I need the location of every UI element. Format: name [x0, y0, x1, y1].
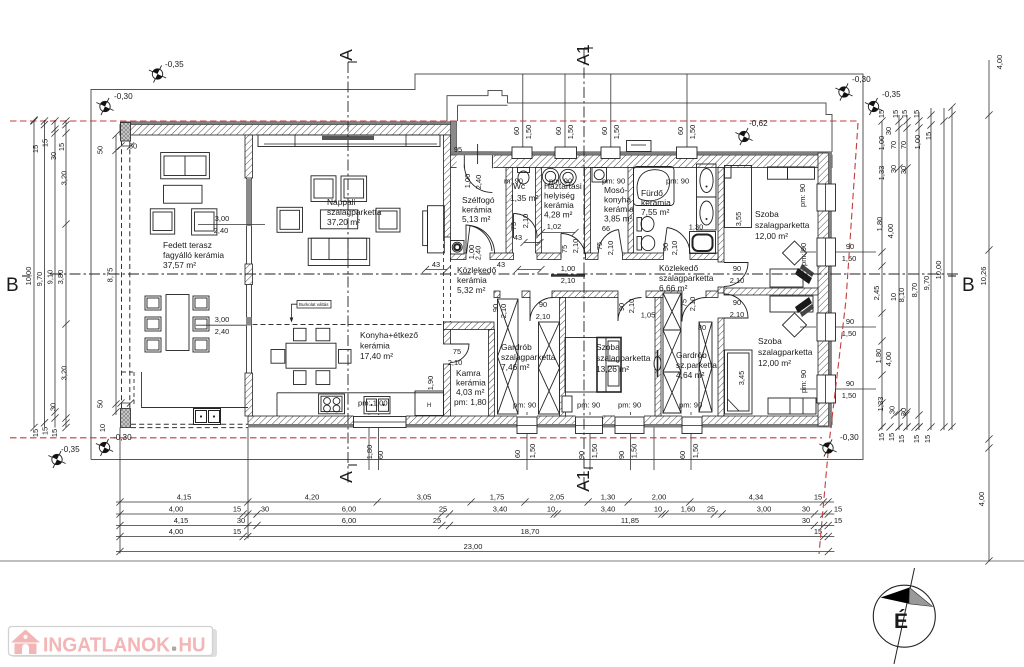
svg-text:30: 30	[899, 166, 908, 174]
svg-text:60: 60	[512, 127, 521, 135]
svg-text:5,13 m²: 5,13 m²	[462, 214, 491, 224]
svg-text:pm: 90: pm: 90	[799, 243, 808, 266]
svg-text:3,05: 3,05	[417, 493, 432, 502]
svg-text:30: 30	[884, 127, 893, 135]
svg-text:helyiség: helyiség	[544, 191, 575, 201]
svg-text:1,90: 1,90	[426, 376, 435, 390]
svg-text:4,64 m²: 4,64 m²	[676, 370, 705, 380]
svg-text:15: 15	[834, 516, 842, 525]
svg-text:12,00 m²: 12,00 m²	[755, 231, 788, 241]
svg-text:2,10: 2,10	[688, 297, 697, 311]
svg-text:-0,30: -0,30	[840, 433, 859, 442]
svg-text:10: 10	[654, 505, 662, 514]
svg-text:15: 15	[923, 435, 932, 443]
svg-text:1,33: 1,33	[877, 166, 886, 181]
svg-text:15: 15	[233, 527, 241, 536]
svg-text:Szoba: Szoba	[758, 336, 782, 346]
svg-text:4,00: 4,00	[977, 492, 986, 507]
svg-text:30: 30	[49, 152, 58, 160]
svg-text:15: 15	[50, 429, 59, 437]
svg-text:A: A	[336, 49, 356, 61]
svg-text:pm: 90: pm: 90	[798, 184, 807, 207]
svg-text:2,10: 2,10	[606, 241, 615, 255]
svg-text:95: 95	[454, 145, 462, 154]
svg-text:1,30: 1,30	[689, 223, 703, 232]
svg-text:1,50: 1,50	[528, 444, 537, 458]
svg-text:2,10: 2,10	[561, 276, 575, 285]
svg-text:4,00: 4,00	[169, 505, 184, 514]
svg-text:37,57 m²: 37,57 m²	[163, 260, 196, 270]
svg-text:3,00: 3,00	[215, 315, 229, 324]
svg-text:60: 60	[513, 450, 522, 458]
svg-text:15: 15	[57, 143, 66, 151]
svg-text:pm: 90: pm: 90	[618, 401, 641, 410]
svg-text:30: 30	[261, 505, 269, 514]
svg-text:23,00: 23,00	[464, 542, 483, 551]
svg-text:pm: 90: pm: 90	[513, 401, 536, 410]
svg-text:É: É	[894, 610, 908, 633]
svg-text:3,85 m²: 3,85 m²	[604, 214, 633, 224]
svg-text:30: 30	[899, 408, 908, 416]
svg-text:75: 75	[453, 347, 461, 356]
svg-text:9,70: 9,70	[922, 276, 931, 291]
svg-text:30: 30	[802, 516, 810, 525]
svg-text:8,70: 8,70	[910, 283, 919, 298]
svg-text:30: 30	[889, 165, 898, 173]
svg-text:15: 15	[31, 145, 40, 153]
svg-text:60: 60	[676, 127, 685, 135]
svg-text:90: 90	[733, 298, 741, 307]
svg-text:pm: 90: pm: 90	[679, 401, 702, 410]
svg-text:kerámia: kerámia	[544, 200, 574, 210]
svg-text:A1: A1	[573, 470, 593, 491]
svg-text:Gardrób: Gardrób	[676, 350, 707, 360]
svg-text:75: 75	[560, 245, 569, 253]
svg-text:1,35 m²: 1,35 m²	[510, 193, 539, 203]
svg-text:2,10: 2,10	[448, 358, 462, 367]
svg-text:3,45: 3,45	[737, 371, 746, 385]
svg-text:90: 90	[661, 243, 670, 251]
svg-text:A1: A1	[573, 44, 593, 65]
svg-text:pm: 90: pm: 90	[577, 401, 600, 410]
svg-text:2,10: 2,10	[627, 299, 636, 313]
svg-text:Fedett terasz: Fedett terasz	[163, 240, 212, 250]
svg-text:2,00: 2,00	[652, 493, 667, 502]
svg-text:szalagparketta: szalagparketta	[596, 353, 651, 363]
svg-text:4,00: 4,00	[886, 224, 895, 239]
svg-text:2,40: 2,40	[214, 226, 228, 235]
svg-text:90: 90	[846, 379, 854, 388]
svg-text:75: 75	[595, 242, 604, 250]
svg-text:9,10: 9,10	[46, 270, 55, 285]
svg-text:4,15: 4,15	[177, 493, 192, 502]
svg-text:Szélfogó: Szélfogó	[462, 195, 495, 205]
svg-text:-0,35: -0,35	[882, 90, 901, 99]
svg-text:1,50: 1,50	[842, 391, 857, 400]
svg-text:75: 75	[509, 222, 518, 230]
svg-text:90: 90	[577, 451, 586, 459]
svg-text:80: 80	[698, 323, 706, 332]
svg-text:1,00: 1,00	[913, 135, 922, 150]
svg-text:60: 60	[376, 451, 385, 459]
svg-text:1,00: 1,00	[463, 174, 472, 188]
svg-text:Kamra: Kamra	[456, 368, 481, 378]
svg-text:2,10: 2,10	[571, 239, 580, 253]
svg-text:10,26: 10,26	[979, 267, 988, 286]
svg-text:szalagparketta: szalagparketta	[659, 273, 714, 283]
svg-text:pm: 1,80: pm: 1,80	[454, 397, 487, 407]
svg-text:1,30: 1,30	[601, 493, 616, 502]
svg-text:2,40: 2,40	[215, 327, 229, 336]
svg-text:66: 66	[602, 224, 610, 233]
svg-text:15: 15	[887, 433, 896, 441]
svg-text:1,50: 1,50	[842, 329, 857, 338]
svg-text:60: 60	[554, 127, 563, 135]
svg-text:Fürdő: Fürdő	[641, 188, 663, 198]
svg-text:11,85: 11,85	[621, 516, 639, 525]
svg-text:-0,30: -0,30	[114, 92, 133, 101]
svg-text:1,80: 1,80	[874, 349, 883, 364]
svg-text:Konyha+étkező: Konyha+étkező	[360, 330, 418, 340]
svg-text:90: 90	[846, 317, 854, 326]
svg-text:7,46 m²: 7,46 m²	[501, 362, 530, 372]
svg-text:70: 70	[899, 141, 908, 149]
svg-text:2,40: 2,40	[474, 246, 483, 260]
svg-text:Közlekedő: Közlekedő	[659, 263, 698, 273]
svg-text:-0,30: -0,30	[113, 433, 132, 442]
svg-text:m: 90: m: 90	[504, 177, 523, 186]
svg-text:6,00: 6,00	[342, 516, 357, 525]
svg-text:70: 70	[889, 141, 898, 149]
svg-text:90: 90	[617, 303, 626, 311]
svg-text:8,75: 8,75	[106, 268, 115, 283]
svg-text:pm: 90: pm: 90	[666, 177, 689, 186]
svg-text:8,10: 8,10	[897, 288, 906, 303]
svg-text:6,66 m²: 6,66 m²	[659, 283, 688, 293]
svg-text:15: 15	[814, 493, 822, 502]
svg-text:1,50: 1,50	[688, 125, 697, 139]
svg-text:-0,35: -0,35	[61, 445, 80, 454]
svg-text:13,26 m²: 13,26 m²	[596, 364, 629, 374]
svg-text:1,50: 1,50	[630, 444, 639, 458]
svg-text:H: H	[427, 403, 431, 409]
svg-text:1,50: 1,50	[566, 125, 575, 139]
svg-text:6,00: 6,00	[342, 505, 357, 514]
svg-text:50: 50	[96, 400, 105, 408]
svg-text:sz.parketta: sz.parketta	[676, 360, 717, 370]
svg-text:1,75: 1,75	[490, 493, 505, 502]
svg-text:kerámia: kerámia	[456, 378, 486, 388]
svg-text:1,60: 1,60	[681, 505, 696, 514]
svg-text:15: 15	[891, 110, 900, 118]
svg-text:szalagparketta: szalagparketta	[501, 352, 556, 362]
svg-text:4,00: 4,00	[884, 352, 893, 367]
svg-text:2,45: 2,45	[872, 286, 881, 301]
svg-text:25: 25	[439, 505, 447, 514]
svg-text:30: 30	[49, 403, 58, 411]
svg-text:12,00 m²: 12,00 m²	[758, 358, 791, 368]
svg-text:1,00: 1,00	[561, 264, 575, 273]
svg-text:fagyálló kerámia: fagyálló kerámia	[163, 250, 224, 260]
svg-text:kerámia: kerámia	[457, 275, 487, 285]
svg-text:90: 90	[539, 300, 547, 309]
svg-text:3,00: 3,00	[215, 214, 229, 223]
svg-text:-0,35: -0,35	[165, 60, 184, 69]
svg-text:43: 43	[497, 260, 505, 269]
svg-text:15: 15	[877, 110, 886, 118]
svg-text:15: 15	[900, 110, 909, 118]
svg-text:60: 60	[678, 451, 687, 459]
svg-text:25: 25	[707, 505, 715, 514]
svg-text:3,40: 3,40	[601, 505, 616, 514]
svg-text:7,55 m²: 7,55 m²	[641, 207, 670, 217]
svg-text:1,50: 1,50	[590, 444, 599, 458]
svg-text:kerámia: kerámia	[462, 205, 492, 215]
svg-text:szalagparketta: szalagparketta	[758, 347, 813, 357]
svg-text:4,15: 4,15	[174, 516, 189, 525]
svg-text:15: 15	[31, 429, 40, 437]
svg-text:37,20 m²: 37,20 m²	[327, 217, 360, 227]
svg-text:9,70: 9,70	[35, 272, 44, 287]
svg-text:1,05: 1,05	[641, 311, 655, 320]
svg-text:90: 90	[617, 451, 626, 459]
svg-text:4,28 m²: 4,28 m²	[544, 210, 573, 220]
svg-text:2,10: 2,10	[730, 276, 744, 285]
svg-text:4,34: 4,34	[749, 493, 764, 502]
svg-text:3,20: 3,20	[60, 171, 69, 186]
svg-text:15: 15	[897, 435, 906, 443]
svg-text:15: 15	[912, 435, 921, 443]
svg-text:3,40: 3,40	[493, 505, 508, 514]
svg-text:kerámia: kerámia	[641, 198, 671, 208]
svg-text:-0,62: -0,62	[749, 119, 768, 128]
svg-text:10,00: 10,00	[934, 261, 943, 280]
svg-text:43: 43	[514, 233, 522, 242]
svg-text:15: 15	[834, 505, 842, 514]
svg-text:5,32 m²: 5,32 m²	[457, 285, 486, 295]
svg-text:30: 30	[237, 516, 245, 525]
svg-text:15: 15	[912, 110, 921, 118]
svg-text:pm: 90: pm: 90	[549, 177, 572, 186]
svg-text:10: 10	[547, 505, 555, 514]
svg-text:pm: 1,00: pm: 1,00	[358, 399, 388, 408]
svg-text:A: A	[336, 471, 356, 483]
svg-text:15: 15	[877, 433, 886, 441]
svg-text:Mosó-: Mosó-	[604, 185, 627, 195]
svg-text:15: 15	[924, 132, 933, 140]
svg-text:Burkolat váltás: Burkolat váltás	[299, 302, 329, 307]
svg-text:25: 25	[433, 516, 441, 525]
svg-text:1,80: 1,80	[365, 445, 374, 459]
svg-text:30: 30	[802, 505, 810, 514]
svg-text:10: 10	[98, 424, 107, 432]
svg-text:18,70: 18,70	[521, 527, 540, 536]
svg-text:1,50: 1,50	[612, 125, 621, 139]
svg-text:B: B	[962, 275, 975, 296]
svg-text:1,00: 1,00	[877, 136, 886, 151]
svg-text:1,50: 1,50	[524, 125, 533, 139]
svg-text:Gardrób: Gardrób	[501, 342, 532, 352]
svg-text:szalagparketta: szalagparketta	[755, 220, 810, 230]
svg-text:Közlekedő: Közlekedő	[457, 265, 496, 275]
svg-text:1,50: 1,50	[691, 444, 700, 458]
svg-text:pm: 90: pm: 90	[602, 177, 625, 186]
svg-text:2,40: 2,40	[474, 175, 483, 189]
svg-text:2,10: 2,10	[499, 304, 508, 318]
svg-text:HU: HU	[179, 635, 206, 657]
svg-text:50: 50	[96, 146, 105, 154]
svg-text:4,03 m²: 4,03 m²	[456, 387, 485, 397]
svg-text:3,00: 3,00	[757, 505, 772, 514]
svg-text:2,10: 2,10	[521, 214, 530, 228]
svg-text:3,20: 3,20	[60, 366, 69, 381]
svg-text:INGATLANOK: INGATLANOK	[43, 635, 171, 657]
svg-text:kerámia: kerámia	[360, 341, 390, 351]
svg-text:1,33: 1,33	[876, 397, 885, 412]
svg-text:30: 30	[888, 406, 897, 414]
svg-text:15: 15	[41, 427, 50, 435]
svg-text:3,80: 3,80	[56, 270, 65, 285]
svg-text:kerámia: kerámia	[604, 204, 634, 214]
svg-text:1,80: 1,80	[875, 217, 884, 232]
svg-text:szalagparketta: szalagparketta	[327, 207, 382, 217]
svg-text:17,40 m²: 17,40 m²	[360, 351, 393, 361]
svg-text:2,05: 2,05	[550, 493, 565, 502]
svg-text:Szoba: Szoba	[755, 209, 779, 219]
svg-text:2,10: 2,10	[536, 312, 550, 321]
svg-text:4,20: 4,20	[305, 493, 320, 502]
svg-text:3,55: 3,55	[734, 212, 743, 226]
svg-text:B: B	[6, 275, 19, 296]
svg-text:60: 60	[600, 127, 609, 135]
svg-text:konyha: konyha	[604, 195, 631, 205]
svg-text:-0,30: -0,30	[852, 75, 871, 84]
svg-text:Nappali: Nappali	[327, 197, 356, 207]
svg-text:15: 15	[233, 505, 241, 514]
svg-text:Szoba: Szoba	[596, 342, 620, 352]
svg-text:15: 15	[41, 139, 50, 147]
svg-text:1,02: 1,02	[547, 222, 561, 231]
svg-text:4,00: 4,00	[995, 55, 1004, 70]
svg-text:4,00: 4,00	[169, 527, 184, 536]
svg-text:90: 90	[733, 264, 741, 273]
svg-text:pm: 90: pm: 90	[799, 370, 808, 393]
svg-text:2,10: 2,10	[670, 241, 679, 255]
svg-text:43: 43	[432, 260, 440, 269]
svg-text:2,10: 2,10	[730, 310, 744, 319]
